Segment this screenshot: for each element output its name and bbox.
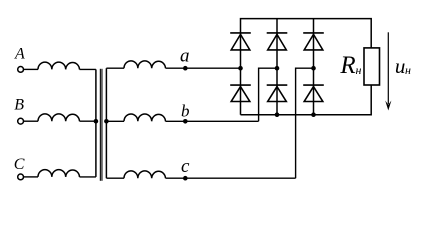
junction secondary star point <box>104 119 109 124</box>
primary star bus <box>95 69 97 176</box>
wire a to bridge <box>185 67 240 69</box>
svg-text:c: c <box>181 156 190 177</box>
wire bridge bottom rail <box>241 85 372 115</box>
wire secondary a lead <box>106 67 124 69</box>
wire C lead <box>24 176 38 178</box>
secondary star bus <box>105 68 107 178</box>
wire b to riser <box>185 120 258 122</box>
junction a midpoint <box>238 66 243 71</box>
svg-text:a: a <box>180 46 190 67</box>
svg-text:A: A <box>14 46 25 63</box>
junction c midpoint <box>311 66 316 71</box>
wire B lead <box>24 120 38 122</box>
node b <box>183 119 188 124</box>
svg-text:u: u <box>395 54 406 78</box>
terminal B <box>18 118 24 124</box>
wire bridge column 3 <box>313 19 315 115</box>
junction bottom rail col2 <box>275 112 280 117</box>
wire c to node <box>166 177 186 179</box>
junction primary star point <box>94 119 99 124</box>
wire bridge column 2 <box>276 19 278 115</box>
svg-text:н: н <box>405 63 411 77</box>
primary winding B <box>38 114 80 121</box>
wire b to node <box>166 120 186 122</box>
wire C to primary bus <box>80 176 96 178</box>
diode VD6 <box>303 85 324 101</box>
terminal A <box>18 67 24 73</box>
diode VD4 <box>230 85 251 101</box>
diode VD3 <box>303 33 324 50</box>
wire B to primary bus <box>80 120 96 122</box>
wire a to node <box>166 67 186 69</box>
svg-text:н: н <box>356 63 362 77</box>
secondary winding a <box>124 61 166 68</box>
wire A lead <box>24 68 38 70</box>
arrow un <box>387 32 389 104</box>
svg-text:B: B <box>14 97 24 114</box>
diode VD5 <box>267 85 288 101</box>
wire riser phase b <box>259 68 277 121</box>
node c <box>183 176 188 181</box>
terminal C <box>18 174 24 180</box>
wire riser phase c <box>296 68 314 178</box>
diode VD1 <box>230 33 251 50</box>
secondary winding c <box>124 171 166 178</box>
svg-text:b: b <box>181 102 190 121</box>
wire secondary c lead <box>106 177 124 179</box>
secondary winding b <box>124 114 166 121</box>
primary winding A <box>38 62 80 69</box>
diode VD2 <box>267 33 288 50</box>
primary winding C <box>38 170 80 177</box>
svg-text:C: C <box>14 156 25 173</box>
wire c to riser <box>185 177 295 179</box>
wire A to primary bus <box>80 68 96 70</box>
junction b midpoint <box>275 66 280 71</box>
junction bottom rail col3 <box>311 112 316 117</box>
wire bridge top rail <box>241 19 372 115</box>
transformer core <box>99 69 101 181</box>
node a <box>183 66 188 71</box>
wire secondary b lead <box>106 120 124 122</box>
resistor Rn <box>364 48 380 85</box>
svg-text:R: R <box>339 52 355 79</box>
